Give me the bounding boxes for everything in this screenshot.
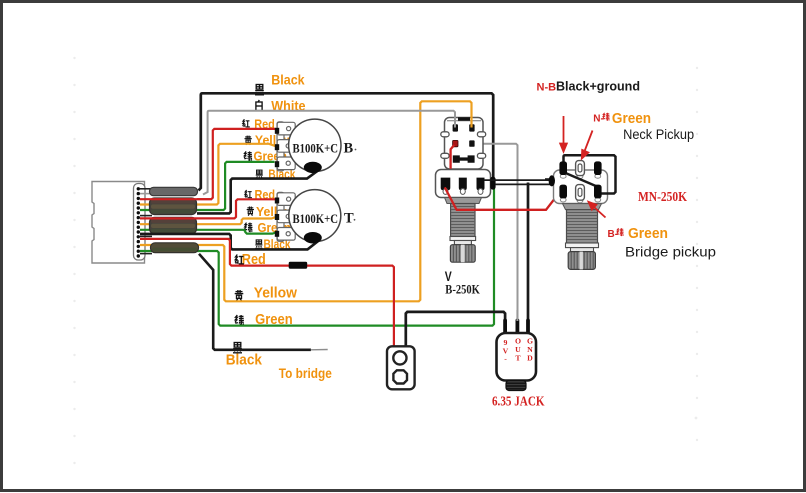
- MN top-right lug: [594, 161, 602, 175]
- svg-text:B: B: [344, 140, 354, 156]
- knurled knob: [450, 245, 475, 263]
- jack pins: [503, 319, 530, 335]
- svg-text:Black: Black: [226, 352, 263, 368]
- svg-text:To bridge: To bridge: [279, 366, 332, 381]
- svg-text:N-B: N-B: [537, 82, 557, 94]
- pot B casing lug (black oval): [304, 162, 322, 173]
- wire red to battery clip: [140, 239, 394, 346]
- svg-text:N-: N-: [593, 114, 604, 125]
- wire black battery to jack 9V pin: [406, 312, 505, 346]
- lug holes: [443, 189, 483, 195]
- heat shrink tube 2: [150, 198, 197, 215]
- svg-text:-: -: [504, 354, 507, 363]
- pot T terminal holes: [286, 197, 291, 236]
- base collar: [445, 198, 482, 204]
- MN jumper diagonal: [566, 173, 598, 187]
- svg-text:Green: Green: [628, 226, 668, 242]
- MN red pointer arrow 1 (N-B): [560, 116, 567, 152]
- svg-text:Bridge pickup: Bridge pickup: [625, 244, 716, 259]
- MN red pointer arrow 3 (B-green): [589, 202, 606, 218]
- connector plug body: [92, 182, 145, 264]
- svg-text:Yellow: Yellow: [254, 286, 298, 302]
- wire black to pot T casing: [140, 234, 320, 250]
- wire red switch pin to middle lug: [451, 145, 463, 180]
- MN bottom-left lug: [559, 185, 567, 199]
- MN neck: [571, 248, 594, 252]
- wire red to pot T: [140, 199, 276, 218]
- switch side tabs: [441, 132, 486, 159]
- wire white end into top-left pin: [454, 117, 456, 128]
- svg-text:T: T: [344, 211, 354, 227]
- thin pin wires to tubes: [140, 189, 152, 254]
- svg-text:Neck Pickup: Neck Pickup: [623, 127, 694, 142]
- jack body: [497, 333, 537, 381]
- wire black to pot B casing: [197, 170, 320, 214]
- pot T casing lug (black oval): [304, 232, 322, 243]
- svg-text:B-: B-: [608, 229, 619, 240]
- ferrite bead on red wire: [289, 262, 308, 269]
- svg-text:B100K+C: B100K+C: [293, 142, 339, 156]
- jack threaded sleeve: [506, 381, 526, 391]
- svg-text:T: T: [515, 354, 521, 363]
- heat shrink tube 3: [150, 217, 197, 233]
- shaft neck: [454, 241, 471, 245]
- MN body: [554, 170, 608, 204]
- MN left connection blob: [545, 178, 551, 180]
- wire yellow to pot T: [140, 216, 278, 224]
- MN red pointer arrow 2 (N-green): [582, 131, 593, 159]
- wire green to pot T: [140, 230, 277, 234]
- svg-text:MN-250K: MN-250K: [638, 189, 687, 204]
- pot B terminal holes: [286, 127, 291, 166]
- connector pin strip: [134, 184, 146, 261]
- svg-text:B100K+C: B100K+C: [293, 212, 339, 226]
- switch lower H element: [453, 155, 475, 162]
- MN bottom-middle lug (with hole): [576, 185, 585, 201]
- jack pin texts: [503, 337, 534, 364]
- under-tube wires: [140, 101, 494, 325]
- ground junction blob: [490, 177, 495, 190]
- heat shrink tube 1: [150, 187, 198, 195]
- switch top cap stripe: [447, 120, 481, 122]
- pot base: [436, 170, 491, 198]
- wire gray switch to jack OUT pin: [475, 144, 518, 322]
- wire black to bridge (stub): [199, 254, 311, 350]
- wire green to pot B: [140, 162, 275, 210]
- wire red to pot B: [197, 129, 276, 199]
- threaded shaft: [451, 204, 475, 237]
- pot T body circle: [289, 190, 341, 242]
- pot B crimp marks: [275, 128, 279, 167]
- svg-text:Black: Black: [271, 73, 305, 88]
- switch body: [445, 118, 484, 170]
- wire green to ground junction: [140, 189, 494, 326]
- MN flange: [563, 204, 602, 210]
- pot B body circle: [289, 119, 341, 171]
- svg-text:6.35 JACK: 6.35 JACK: [492, 394, 545, 409]
- wire yellow to switch top-right pin: [140, 101, 472, 301]
- switch middle pins: [453, 140, 458, 146]
- MN knurled knob: [568, 252, 595, 270]
- svg-text:Green: Green: [612, 111, 651, 127]
- MN top-left lug: [559, 161, 567, 175]
- svg-text:Black+ground: Black+ground: [556, 79, 640, 94]
- svg-text:D: D: [527, 354, 533, 363]
- MN threaded shaft: [567, 210, 598, 243]
- MN bottom-right lug: [594, 185, 602, 199]
- MN top-middle lug (with hole): [576, 161, 585, 176]
- wire white (connector to switch top-left pin): [203, 111, 455, 195]
- pot T terminal housing: [277, 192, 295, 241]
- switch top pins: [453, 124, 458, 131]
- base lugs: [441, 178, 485, 191]
- MN nut band: [566, 243, 599, 248]
- heat shrink tube 4: [151, 243, 199, 253]
- faint watermark dotted line: [73, 57, 698, 464]
- clip snap socket (octagon): [393, 370, 407, 383]
- MN lug feet: [560, 174, 600, 203]
- wire yellow to pot B: [140, 144, 277, 205]
- connector pins: [137, 187, 140, 258]
- wire red base left lug to MN pot: [445, 187, 562, 209]
- wire black junction to jack GND pin: [527, 183, 530, 323]
- battery clip body: [387, 346, 415, 389]
- bridge wire bare end: [311, 349, 328, 351]
- svg-text:B-250K: B-250K: [445, 282, 480, 296]
- clip snap stud: [393, 351, 406, 364]
- wire yellow end into top-right pin: [470, 117, 472, 128]
- pot T crimp marks: [275, 198, 279, 237]
- MN wire loop (top-left lug around to bottom-right lug): [564, 155, 616, 193]
- wire black top (connector to switch junction): [199, 93, 494, 190]
- pot B terminal housing: [277, 122, 295, 171]
- junction double link to MN pot: [484, 179, 550, 181]
- shaft nut band: [450, 237, 476, 241]
